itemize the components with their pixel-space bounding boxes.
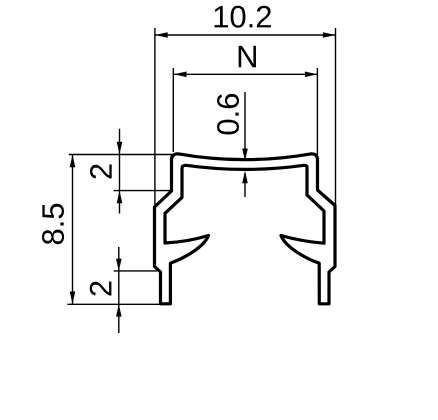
dim 10.2 left extension line [154,28,156,207]
extension line top (shared 8.5 / first 2) [69,154,172,156]
dim 2 lower down arrow [116,259,122,272]
dim N text [239,46,256,67]
dim N line [174,73,317,75]
dim N right arrow [305,72,318,78]
dim 2 upper text (rotated) [90,164,112,178]
profile outline (gasket cross-section) [155,154,336,304]
dim 2 lower text (rotated) [90,281,112,295]
dim 2 upper up arrow [117,191,123,204]
dim 8.5 line [72,155,74,304]
dim 8.5 top arrow [70,155,76,168]
dim 0.6 lower leader line [244,173,246,197]
extension line bottom (shared 8.5 / second 2) [67,303,162,305]
dim 8.5 bottom arrow [70,292,76,305]
dim 10.2 line [155,34,335,36]
dim 0.6 upper leader line [244,92,246,158]
dim 0.6 lower arrow (up) [242,171,248,184]
dim 0.6 upper arrow (down) [242,149,248,162]
dim N right extension line [316,68,318,155]
dim 0.6 text (rotated) [217,94,239,135]
dim 10.2 right arrow [323,32,336,38]
dim 2 upper line [119,129,121,214]
dim 2 lower line [118,247,120,333]
dim 2 lower upper extension line [114,270,157,272]
dim 2 upper down arrow [117,142,123,155]
dim 2 upper lower extension line [114,190,172,192]
dim N left extension line [172,68,174,152]
dim 2 lower up arrow [116,304,122,317]
dim 10.2 text [215,6,271,28]
dim 8.5 text (rotated) [42,204,64,244]
dim N left arrow [174,72,187,78]
dim 10.2 left arrow [155,32,168,38]
dim 10.2 right extension line [335,28,337,205]
